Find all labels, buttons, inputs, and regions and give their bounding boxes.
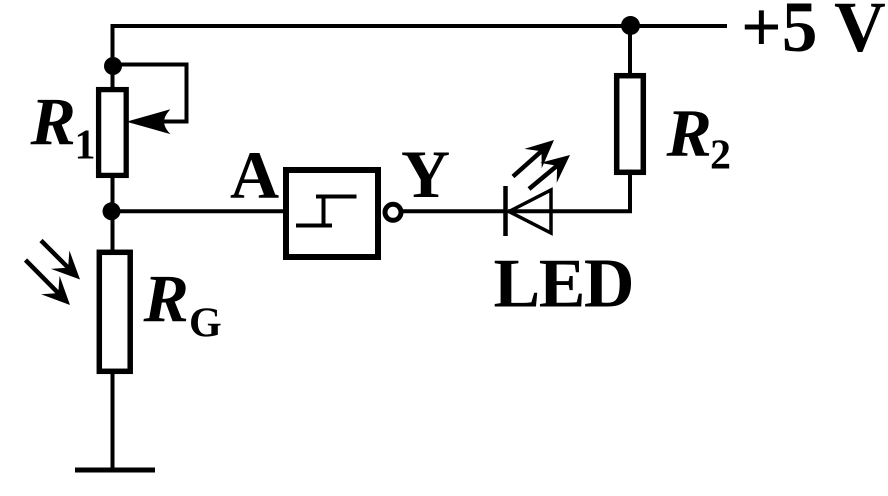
ground	[75, 468, 155, 473]
LED emission arrow 2	[529, 155, 570, 189]
wire RG to ground	[111, 371, 115, 470]
op-amp U1 Schmitt trigger box	[286, 170, 378, 257]
light arrow 2 into RG	[26, 260, 71, 305]
wire bubble to LED	[402, 209, 504, 213]
wire LED to R2	[508, 173, 630, 211]
svg-text:R: R	[30, 84, 76, 160]
svg-text:R: R	[143, 261, 189, 337]
svg-text:R: R	[666, 95, 712, 171]
svg-text:1: 1	[75, 123, 96, 169]
node dot top of R1	[104, 57, 122, 75]
svg-text:2: 2	[710, 133, 731, 179]
wire node A to Schmitt input	[112, 209, 285, 213]
wire wiper loop	[113, 65, 187, 122]
hysteresis symbol	[296, 197, 357, 226]
LED triangle	[509, 190, 551, 233]
svg-text:G: G	[189, 301, 222, 347]
node dot A	[103, 202, 121, 220]
inverter output bubble	[385, 204, 401, 220]
svg-text:LED: LED	[494, 246, 633, 323]
wire left vertical from rail to R1	[111, 24, 115, 88]
resistor R2 body	[617, 76, 644, 173]
svg-text:A: A	[230, 137, 279, 213]
light arrow 1 into RG	[41, 241, 80, 280]
LED cathode bar	[503, 186, 508, 236]
svg-text:Y: Y	[401, 136, 450, 212]
LED emission arrow 1	[513, 140, 554, 177]
wire between R1 and RG	[111, 178, 115, 250]
wiper arrowhead	[130, 111, 169, 133]
svg-text:+5 V: +5 V	[741, 0, 886, 67]
node dot on rail	[621, 16, 640, 35]
wire R2 to rail	[628, 24, 632, 76]
wire +5V top rail	[113, 24, 727, 28]
photoresistor RG body	[99, 252, 130, 371]
resistor R1 (potentiometer body)	[99, 90, 127, 176]
